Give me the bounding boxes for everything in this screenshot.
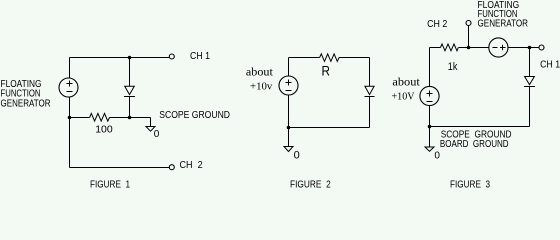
svg-text:CH 2: CH 2 xyxy=(427,18,447,30)
svg-text:1k: 1k xyxy=(448,61,458,73)
svg-text:about: about xyxy=(392,75,420,89)
svg-text:CH 1: CH 1 xyxy=(540,58,560,70)
svg-text:GENERATOR: GENERATOR xyxy=(478,18,529,30)
svg-text:+10V: +10V xyxy=(392,90,415,102)
svg-text:0: 0 xyxy=(294,149,300,161)
svg-text:CH 2: CH 2 xyxy=(180,159,203,171)
svg-text:0: 0 xyxy=(154,129,160,140)
svg-text:+10v: +10v xyxy=(250,81,273,93)
svg-text:100: 100 xyxy=(95,123,113,135)
svg-text:GENERATOR: GENERATOR xyxy=(1,98,51,110)
svg-text:0: 0 xyxy=(434,150,440,161)
svg-text:about: about xyxy=(246,64,274,78)
svg-text:BOARD GROUND: BOARD GROUND xyxy=(440,138,509,150)
svg-text:SCOPE GROUND: SCOPE GROUND xyxy=(159,109,230,121)
svg-text:FIGURE 2: FIGURE 2 xyxy=(290,178,331,188)
svg-text:R: R xyxy=(322,63,331,79)
svg-text:FIGURE 1: FIGURE 1 xyxy=(90,178,130,188)
svg-text:FIGURE 3: FIGURE 3 xyxy=(450,178,490,188)
svg-text:CH 1: CH 1 xyxy=(190,50,210,62)
